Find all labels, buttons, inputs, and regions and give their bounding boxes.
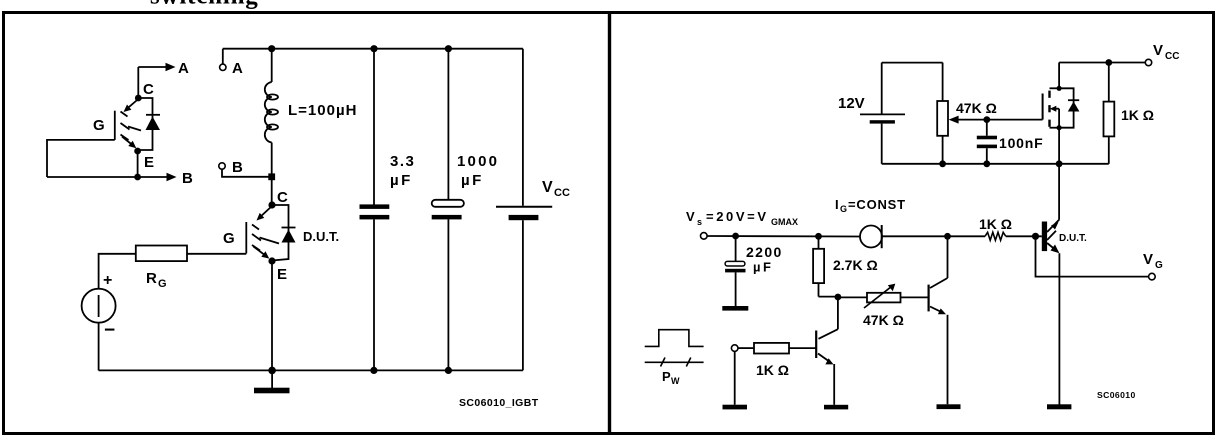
svg-text:GMAX: GMAX [771, 217, 798, 227]
transistor Q1 [816, 297, 838, 364]
wire 2.7K bottom to Q1 node [819, 296, 839, 298]
svg-text:E: E [277, 266, 287, 283]
wire Q2 emitter down [947, 315, 949, 405]
wire pulse terminal to 1K [738, 347, 754, 349]
wire wiper to gate [987, 119, 1043, 121]
svg-text:47K Ω: 47K Ω [956, 100, 997, 116]
svg-text:µF: µF [461, 172, 484, 189]
svg-text:s: s [697, 217, 702, 227]
wire E to bottom [137, 151, 139, 177]
svg-text:CC: CC [1165, 51, 1179, 62]
junction 2.7K top [815, 233, 822, 240]
junction VCC rail / 1K [1105, 59, 1112, 66]
junction top rail / C2 [445, 45, 452, 52]
IGBT legend symbol [115, 99, 141, 148]
current source IG [860, 225, 882, 248]
node E (legend) [134, 148, 154, 171]
resistor 1K (VCC) [1104, 63, 1155, 164]
pulse waveform PW [645, 330, 704, 386]
junction B node [268, 173, 275, 180]
transistor M1 MOSFET [1043, 63, 1060, 128]
svg-text:L=100µH: L=100µH [288, 102, 357, 119]
svg-text:=CONST: =CONST [848, 197, 906, 212]
ground (2200uF) [722, 306, 748, 311]
wire B to inductor node [222, 169, 272, 177]
ground (Q2) [937, 404, 961, 409]
junction MOSFET source [1057, 125, 1062, 130]
label IG=CONST [835, 197, 906, 214]
svg-text:D.U.T.: D.U.T. [1059, 233, 1087, 244]
capacitor C2 1000uF [432, 49, 499, 371]
wire legend gate loop [47, 140, 115, 177]
resistor 1K (base) [754, 343, 789, 378]
wire RG to gate [187, 253, 246, 255]
svg-text:2200: 2200 [746, 244, 783, 260]
terminal Vs [701, 233, 708, 240]
svg-text:−: − [104, 320, 115, 341]
svg-text:A: A [178, 60, 189, 77]
node C (D.U.T.) [268, 189, 288, 209]
svg-text:A: A [232, 60, 243, 77]
svg-text:µF: µF [390, 172, 413, 189]
junction DUT gate [1032, 233, 1039, 240]
wire 1K to Q1 base [789, 347, 816, 349]
wire to DUT collector [271, 177, 273, 205]
ground (Q1) [824, 405, 848, 410]
transistor Q2 [929, 278, 948, 314]
resistor RG [136, 246, 187, 291]
inductor L1 [265, 49, 278, 177]
node B (legend arrow) [167, 170, 194, 187]
junction legend bottom [134, 174, 141, 181]
junction 100nF bottom [983, 160, 990, 167]
terminal VCC [1145, 42, 1179, 66]
resistor 2.7K [813, 236, 878, 296]
junction C1 bottom [370, 367, 377, 374]
label Vs=20V=VGMAX [686, 209, 798, 227]
resistor 1K gate (zigzag) [979, 216, 1012, 240]
svg-text:G: G [93, 117, 105, 134]
wire Vs to current source [707, 235, 860, 238]
junction 2200uF [732, 233, 739, 240]
junction Q2 collector node [944, 233, 951, 240]
svg-text:R: R [146, 270, 157, 287]
terminal B [219, 159, 243, 176]
svg-text:D.U.T.: D.U.T. [303, 229, 339, 244]
svg-text:SC06010_IGBT: SC06010_IGBT [459, 397, 539, 409]
svg-text:V: V [686, 209, 695, 224]
svg-text:G: G [223, 230, 235, 247]
wire pulse terminal to ground [734, 351, 736, 404]
svg-text:CC: CC [554, 187, 570, 199]
junction Q1 collector node [835, 294, 842, 301]
junction ground node [268, 367, 276, 375]
wire source to bottom rail [98, 323, 100, 371]
capacitor C1 3.3uF [360, 49, 416, 371]
svg-text:B: B [232, 159, 243, 176]
wire Q2 collector [947, 236, 949, 278]
svg-text:G: G [158, 278, 167, 290]
potentiometer 47K [937, 63, 997, 164]
terminal pulse input [731, 345, 738, 352]
junction source rail [1056, 160, 1063, 167]
diode anti-parallel (D.U.T.) [272, 205, 296, 261]
svg-text:3.3: 3.3 [390, 153, 415, 170]
wire RG to source [99, 254, 136, 289]
wire C to A arrow [137, 67, 139, 98]
svg-text:1K Ω: 1K Ω [979, 216, 1012, 232]
junction MOSFET drain [1057, 86, 1062, 91]
node E (D.U.T.) [268, 257, 287, 283]
svg-text:E: E [144, 154, 154, 171]
transistor D.U.T. IGBT [246, 206, 279, 259]
svg-text:G: G [840, 204, 847, 214]
svg-text:I: I [835, 197, 839, 212]
junction pot bottom [939, 160, 946, 167]
svg-text:47K Ω: 47K Ω [863, 312, 904, 328]
wire Q1 emitter down [833, 364, 835, 405]
svg-text:V: V [1143, 251, 1153, 268]
wire top rail [223, 48, 523, 50]
ground (DUT) [1047, 404, 1071, 409]
svg-text:+: + [103, 272, 112, 289]
source V1 [82, 272, 116, 341]
svg-text:1000: 1000 [457, 153, 499, 170]
wire zigzag to DUT gate [1006, 235, 1042, 237]
junction top rail / C1 [370, 45, 377, 52]
wire A to top rail [222, 49, 224, 64]
svg-text:V: V [542, 179, 553, 196]
wire current source to 1K zigzag [882, 235, 985, 237]
svg-text:P: P [662, 369, 671, 384]
capacitor 100nF [977, 120, 1044, 164]
diode MOSFET body [1059, 88, 1079, 127]
ground (pulse input) [723, 405, 748, 410]
junction top rail / inductor [268, 45, 275, 52]
svg-text:=20V=V: =20V=V [706, 209, 769, 224]
junction C2 bottom [445, 367, 452, 374]
wire bottom rail [99, 369, 523, 371]
svg-text:µF: µF [753, 260, 773, 275]
svg-text:100nF: 100nF [999, 135, 1043, 151]
wire DUT emitter down [1058, 253, 1060, 404]
wire source down [1058, 128, 1060, 220]
svg-text:W: W [671, 376, 680, 386]
capacitor 2200uF [725, 236, 783, 306]
svg-text:2.7K Ω: 2.7K Ω [833, 257, 878, 273]
svg-text:switching: switching [150, 0, 259, 10]
svg-text:C: C [143, 81, 154, 98]
svg-text:B: B [182, 170, 193, 187]
node A (legend arrow) [138, 60, 189, 77]
wire E down to ground rail [271, 261, 273, 370]
svg-text:C: C [277, 189, 288, 206]
ground [254, 370, 290, 393]
battery VCC [496, 49, 570, 371]
battery 12V [838, 63, 905, 164]
svg-text:SC06010: SC06010 [1097, 390, 1136, 400]
svg-text:G: G [1155, 260, 1163, 271]
terminal A [220, 60, 243, 77]
svg-text:12V: 12V [838, 95, 865, 112]
svg-text:1K Ω: 1K Ω [1121, 107, 1154, 123]
rheostat 47K [838, 284, 929, 328]
wire legend bottom [47, 176, 167, 178]
svg-text:V: V [1153, 42, 1163, 59]
node C (legend) [135, 81, 154, 101]
junction wiper / 100nF [983, 116, 990, 123]
wire 12V top to pot [882, 62, 943, 64]
wire drain to VCC rail [1059, 62, 1148, 64]
diode legend anti-parallel [138, 98, 160, 150]
terminal VG [1143, 251, 1163, 280]
transistor D.U.T. (right) [1042, 219, 1087, 253]
svg-text:1K Ω: 1K Ω [756, 362, 789, 378]
wire bottom rail (12V section) [882, 163, 1109, 165]
wire VG branch [1036, 236, 1149, 276]
